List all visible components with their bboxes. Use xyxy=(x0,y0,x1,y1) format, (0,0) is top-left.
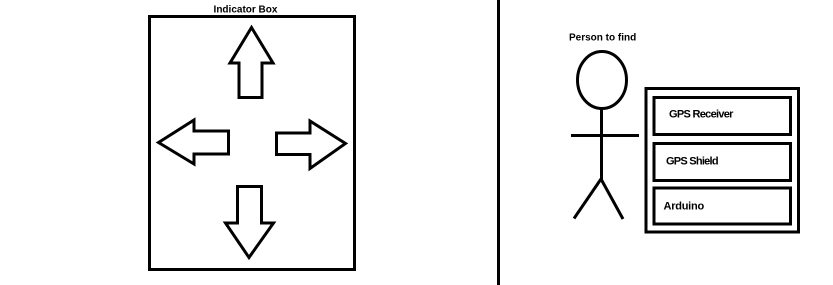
svg-text:Indicator Box: Indicator Box xyxy=(214,5,278,16)
svg-text:Person to find: Person to find xyxy=(569,33,636,44)
indicator box rectangle xyxy=(150,17,355,270)
stick figure head xyxy=(578,52,627,109)
stick figure left leg xyxy=(574,179,601,219)
stick figure body xyxy=(600,109,603,181)
up arrow xyxy=(230,28,273,98)
svg-text:GPS Shield: GPS Shield xyxy=(666,156,718,168)
right arrow xyxy=(277,121,346,169)
outer component box xyxy=(646,89,799,233)
down arrow xyxy=(226,187,274,258)
stick figure right leg xyxy=(601,179,623,219)
svg-text:GPS Receiver: GPS Receiver xyxy=(669,109,734,121)
svg-text:Arduino: Arduino xyxy=(664,201,705,213)
stick figure arms xyxy=(571,134,639,137)
Arduino box xyxy=(654,188,791,224)
divider line xyxy=(497,0,500,285)
GPS Shield box xyxy=(654,144,791,181)
GPS Receiver box xyxy=(654,98,791,135)
left arrow xyxy=(159,120,229,164)
